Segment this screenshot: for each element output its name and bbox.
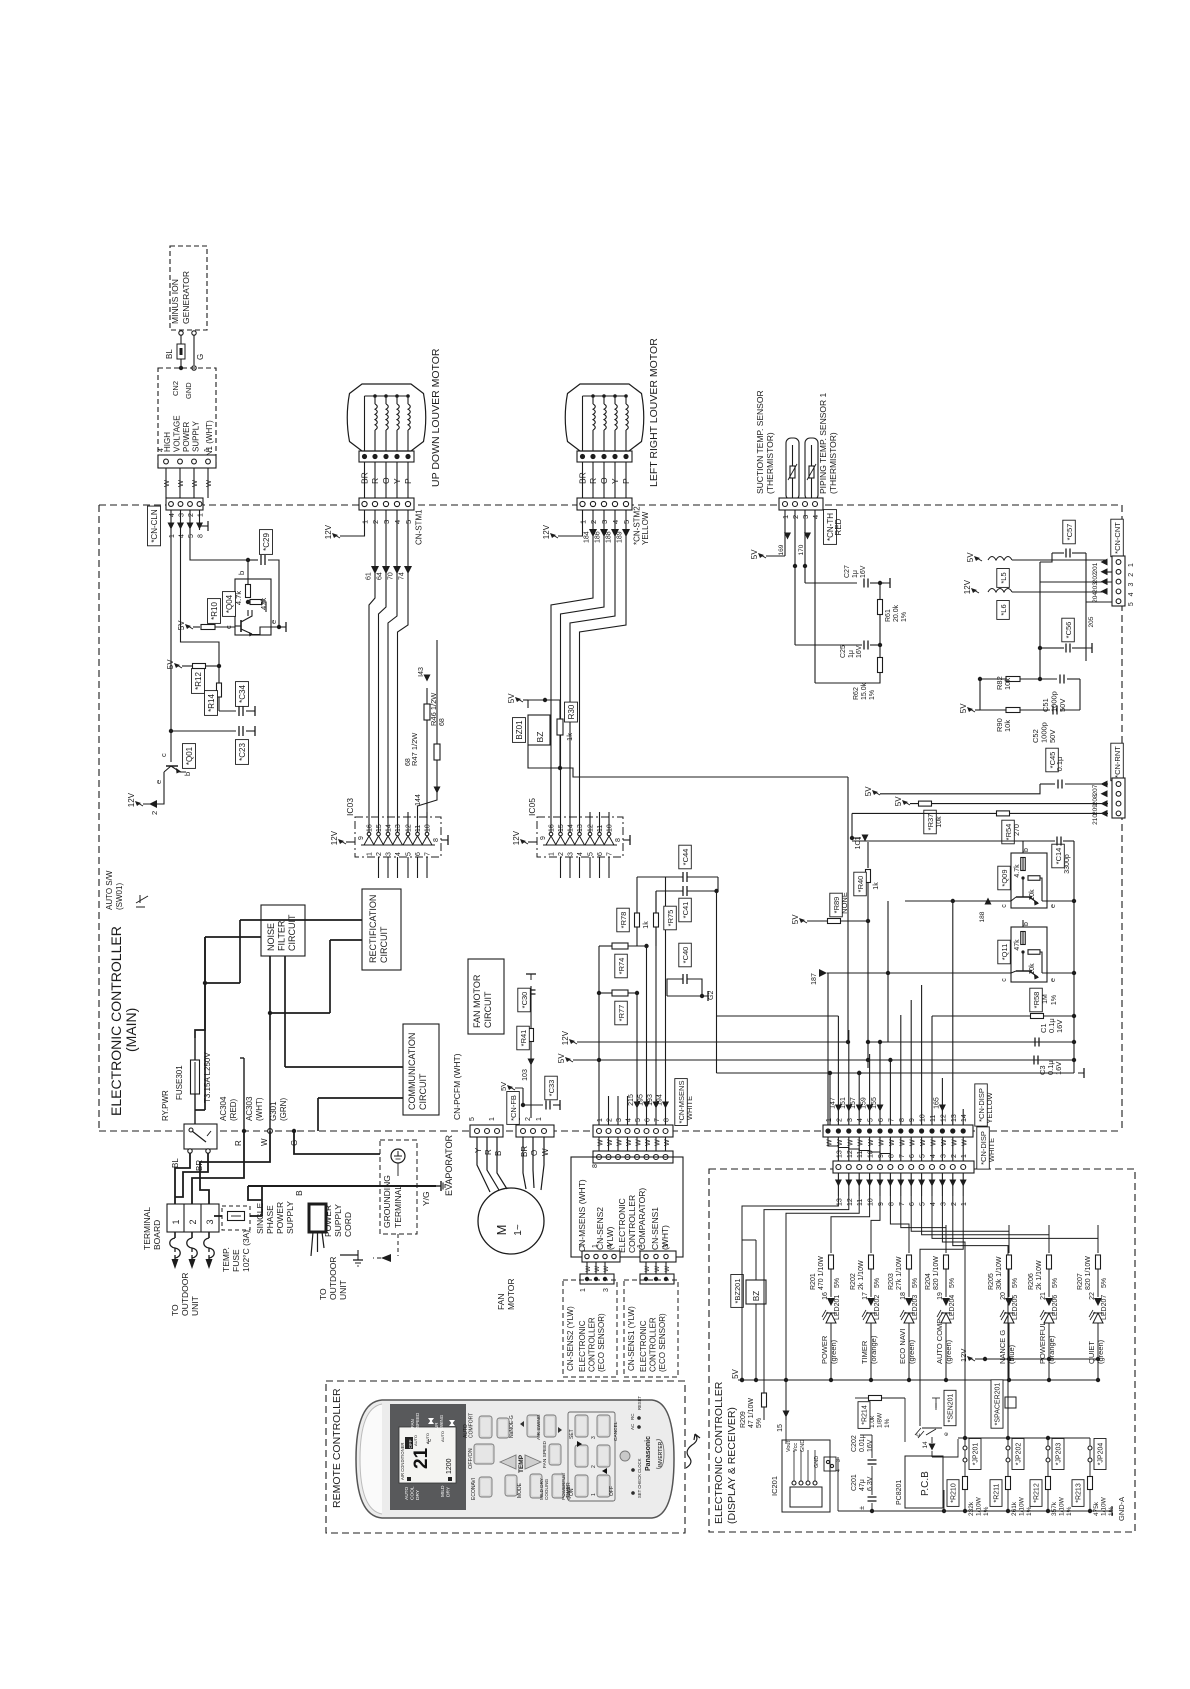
L5 L6 inductors with rails (963, 552, 1112, 628)
svg-text:SUPPLY: SUPPLY (333, 1204, 343, 1237)
svg-text:195: 195 (638, 1094, 645, 1106)
svg-text:102°C (3A): 102°C (3A) (241, 1230, 251, 1272)
svg-text:70: 70 (388, 572, 395, 580)
CN-CLN pin diodes (168, 510, 209, 538)
svg-text:POWERFUL: POWERFUL (1038, 1321, 1047, 1364)
svg-text:RESET: RESET (637, 1396, 642, 1410)
CN-CNT connector right edge (1111, 519, 1135, 606)
svg-text:5V: 5V (507, 693, 516, 703)
svg-text:RED: RED (834, 518, 843, 535)
svg-text:R61: R61 (885, 609, 892, 622)
svg-text:T3.15A L250V: T3.15A L250V (203, 1052, 212, 1103)
svg-text:MOTOR: MOTOR (506, 1279, 516, 1310)
svg-text:*C57: *C57 (1065, 524, 1074, 541)
svg-text:IC05: IC05 (527, 798, 537, 816)
svg-text:1k: 1k (643, 921, 650, 929)
svg-text:27k 1/10W: 27k 1/10W (896, 1256, 903, 1290)
fan motor circuit block (468, 959, 504, 1034)
C57 cap top right (1040, 520, 1086, 566)
svg-text:TEMP: TEMP (518, 1454, 525, 1473)
svg-text:R30: R30 (567, 704, 576, 719)
resistor R62 15.0k 1% (815, 566, 883, 700)
svg-text:184: 184 (584, 531, 591, 543)
svg-text:NONE: NONE (840, 892, 849, 914)
svg-text:M: M (494, 1225, 509, 1236)
svg-text:C27: C27 (844, 565, 851, 578)
svg-text:7: 7 (654, 1118, 661, 1122)
svg-text:147: 147 (829, 1097, 836, 1109)
svg-text:W: W (654, 1265, 661, 1272)
AC304 AC303 G301 node labels (219, 1040, 299, 1146)
misc right wires (866, 1040, 1074, 1060)
svg-text:5V: 5V (499, 1082, 508, 1091)
svg-text:5: 5 (406, 852, 413, 856)
svg-text:*CN-CNT: *CN-CNT (1113, 522, 1122, 554)
svg-text:3: 3 (940, 1154, 947, 1158)
svg-text:8: 8 (899, 1118, 906, 1122)
remote dark display panel (390, 1404, 466, 1510)
svg-text:C202: C202 (851, 1435, 858, 1452)
svg-text:*R10: *R10 (210, 602, 219, 620)
svg-text:4: 4 (1128, 592, 1135, 596)
svg-text:820 1/10W: 820 1/10W (933, 1256, 940, 1290)
svg-text:2: 2 (188, 513, 195, 517)
svg-text:189: 189 (617, 531, 624, 543)
svg-text:1%: 1% (869, 690, 876, 700)
svg-text:9: 9 (540, 836, 547, 840)
temp fuse (221, 1206, 251, 1272)
capacitors C1 C3 (1034, 1018, 1076, 1075)
svg-text:MILD: MILD (440, 1485, 446, 1497)
svg-text:5: 5 (1128, 602, 1135, 606)
svg-text:TEMP.: TEMP. (221, 1247, 231, 1272)
svg-text:187: 187 (811, 973, 818, 985)
svg-text:e: e (1050, 904, 1057, 908)
svg-text:R204: R204 (925, 1273, 932, 1290)
svg-text:PHASE: PHASE (265, 1205, 275, 1234)
svg-text:TERMINAL: TERMINAL (393, 1185, 403, 1228)
svg-text:5V: 5V (966, 552, 975, 562)
svg-text:1μ: 1μ (848, 650, 855, 658)
svg-text:b: b (1023, 848, 1030, 852)
buzzer BZ201 (731, 1240, 766, 1382)
svg-text:CN2: CN2 (171, 381, 180, 396)
ground symbol below power cord (340, 1250, 363, 1266)
svg-text:2: 2 (836, 1118, 843, 1122)
svg-text:1: 1 (961, 1202, 968, 1206)
svg-text:OUTDOOR: OUTDOOR (328, 1257, 338, 1300)
svg-text:5V: 5V (894, 796, 903, 806)
svg-text:0.01μ: 0.01μ (859, 1434, 866, 1452)
connector CN-DISP YELLOW (823, 1084, 994, 1146)
IC201 receiver ic (770, 1440, 842, 1512)
C30 R41 103 C33 components (499, 974, 560, 1118)
svg-text:MINUS ION: MINUS ION (170, 279, 180, 324)
svg-text:W: W (176, 479, 185, 487)
eco sensor dashed boxes (563, 1280, 678, 1377)
svg-text:3: 3 (1128, 583, 1135, 587)
svg-text:5%: 5% (949, 1278, 956, 1288)
svg-text:O: O (599, 477, 609, 484)
5V with R12 to node (166, 659, 221, 669)
svg-text:CN-PCFM (WHT): CN-PCFM (WHT) (452, 1053, 462, 1120)
svg-text:W: W (594, 1265, 601, 1272)
R209 and diode 15 (740, 1378, 790, 1444)
noise filter circuit block (261, 905, 305, 956)
svg-text:12: 12 (847, 1150, 854, 1158)
svg-text:R: R (234, 1140, 243, 1146)
connector CN-PCFM (452, 1053, 503, 1137)
svg-text:LED203: LED203 (912, 1295, 919, 1320)
power wiring from relay to blocks (195, 920, 403, 1131)
svg-text:c: c (159, 753, 168, 757)
svg-text:201: 201 (1092, 562, 1099, 573)
svg-text:CN-SENS2: CN-SENS2 (595, 1207, 605, 1250)
svg-text:5: 5 (635, 1118, 642, 1122)
svg-text:SINGLE: SINGLE (255, 1202, 265, 1234)
svg-text:e: e (1050, 978, 1057, 982)
svg-text:4: 4 (179, 534, 186, 538)
svg-text:3: 3 (568, 852, 575, 856)
svg-text:Y: Y (392, 478, 402, 484)
svg-text:4: 4 (930, 1202, 937, 1206)
svg-text:159: 159 (861, 1097, 868, 1109)
connector *CN-STM2 (577, 498, 650, 545)
wire BL with fuse to CN2 (165, 335, 185, 370)
svg-text:LED201: LED201 (834, 1295, 841, 1320)
PC8201 PCB box (896, 1456, 943, 1508)
svg-text:1/8W: 1/8W (877, 1412, 884, 1428)
transistor Q11 (998, 920, 1076, 982)
svg-text:1: 1 (961, 1154, 968, 1158)
diodes on CN-DISP wires (717, 901, 964, 1125)
svg-text:YELLOW: YELLOW (641, 511, 650, 545)
5V rail display box (731, 1368, 1100, 1382)
svg-text:1: 1 (549, 852, 556, 856)
svg-text:CONTROLLER: CONTROLLER (627, 1195, 637, 1253)
svg-text:3: 3 (386, 852, 393, 856)
svg-text:b: b (183, 772, 192, 776)
svg-text:1: 1 (171, 1219, 181, 1224)
svg-text:*C30: *C30 (520, 992, 529, 1009)
driver IC IC05 (512, 798, 630, 878)
svg-text:232k: 232k (968, 1501, 975, 1516)
svg-text:e: e (269, 620, 278, 624)
wire G301 to grounding terminal (294, 1131, 380, 1154)
svg-text:*C33: *C33 (547, 1080, 556, 1097)
svg-text:12V: 12V (561, 1030, 570, 1045)
svg-text:16V: 16V (856, 645, 863, 658)
svg-text:5: 5 (188, 534, 195, 538)
svg-text:(green): (green) (907, 1339, 916, 1364)
GND-A (1090, 1497, 1126, 1521)
driver IC IC03 (330, 798, 448, 878)
svg-text:11: 11 (930, 1115, 937, 1122)
svg-text:CANCEL: CANCEL (613, 1421, 619, 1441)
svg-text:W: W (644, 1265, 651, 1272)
wires to connector *CN-STM2 (578, 462, 632, 498)
display receiver dashed box (709, 1169, 1135, 1532)
svg-text:155: 155 (871, 1097, 878, 1109)
svg-text:e: e (154, 780, 163, 784)
svg-text:1: 1 (580, 1288, 587, 1292)
svg-text:8: 8 (888, 1202, 895, 1206)
svg-text:RECTIFICATION: RECTIFICATION (368, 895, 378, 963)
svg-text:POWER: POWER (323, 1205, 333, 1237)
svg-text:3: 3 (847, 1118, 854, 1122)
svg-text:68: 68 (439, 718, 446, 726)
svg-text:2: 2 (376, 852, 383, 856)
svg-text:16V: 16V (867, 1439, 874, 1452)
svg-text:1: 1 (204, 448, 211, 452)
svg-text:ECONAVI: ECONAVI (471, 1478, 477, 1500)
svg-text:5: 5 (868, 1118, 875, 1122)
svg-text:*CN-RNT: *CN-RNT (1113, 746, 1122, 778)
svg-text:FUSE301: FUSE301 (175, 1065, 184, 1100)
svg-text:4: 4 (395, 852, 402, 856)
right ground rail (830, 1068, 1084, 1078)
svg-text:CONTROLLER: CONTROLLER (649, 1317, 658, 1372)
svg-text:W: W (190, 479, 199, 487)
svg-text:5%: 5% (1012, 1278, 1019, 1288)
svg-text:186: 186 (595, 531, 602, 543)
svg-text:4: 4 (607, 1244, 614, 1248)
svg-text:ELECTRONIC CONTROLLER: ELECTRONIC CONTROLLER (108, 926, 124, 1116)
diode 187 wire (811, 901, 1011, 1042)
svg-text:PIPING TEMP. SENSOR 1: PIPING TEMP. SENSOR 1 (818, 392, 828, 494)
svg-text:NaNOE-G: NaNOE-G (509, 1415, 515, 1438)
R89 R40 187 wires (791, 835, 880, 1063)
svg-text:61: 61 (366, 572, 373, 580)
svg-text:7: 7 (888, 1118, 895, 1122)
svg-text:*R37: *R37 (926, 814, 935, 831)
svg-text:QUIET: QUIET (1087, 1341, 1096, 1364)
12V feed for blue/orange LEDs (959, 1349, 1100, 1362)
svg-text:*CN-CLN: *CN-CLN (150, 509, 159, 543)
svg-text:(orange): (orange) (869, 1335, 878, 1364)
svg-text:12V: 12V (512, 830, 521, 845)
svg-text:1: 1 (826, 1118, 833, 1122)
svg-text:*R77: *R77 (617, 1005, 626, 1022)
svg-text:12: 12 (940, 1114, 947, 1122)
svg-text:11: 11 (415, 825, 422, 832)
svg-text:R209: R209 (740, 1411, 747, 1428)
wire pin1 to C23 and Q01 (169, 510, 255, 764)
svg-text:1/10W: 1/10W (1101, 1496, 1108, 1516)
svg-text:*JP203: *JP203 (1056, 1443, 1063, 1466)
svg-text:*R75: *R75 (666, 910, 675, 927)
svg-text:12V: 12V (959, 1349, 968, 1362)
svg-text:UNIT: UNIT (338, 1280, 348, 1300)
svg-text:Vout: Vout (786, 1441, 792, 1452)
svg-text:3: 3 (205, 1219, 215, 1224)
svg-text:10: 10 (920, 1114, 927, 1122)
svg-text:GND: GND (800, 1440, 806, 1452)
svg-text:2: 2 (951, 1154, 958, 1158)
svg-text:*C41: *C41 (681, 902, 690, 919)
svg-text:15: 15 (777, 1424, 784, 1432)
svg-text:*JP204: *JP204 (1098, 1443, 1105, 1466)
C45 R37 R54 5V rails (852, 748, 1108, 844)
svg-text:9: 9 (358, 836, 365, 840)
svg-text:1: 1 (367, 852, 374, 856)
svg-text:(SW01): (SW01) (115, 883, 124, 910)
capacitor C27 1u 16V (805, 565, 890, 588)
svg-text:3: 3 (940, 1202, 947, 1206)
svg-text:AUTO: AUTO (413, 1435, 418, 1446)
svg-text:UNIT: UNIT (190, 1296, 200, 1316)
svg-text:12: 12 (847, 1198, 854, 1206)
svg-text:R: R (370, 478, 380, 484)
svg-text:11: 11 (597, 825, 604, 832)
svg-text:9: 9 (878, 1202, 885, 1206)
svg-text:SUPPLY: SUPPLY (192, 420, 201, 452)
svg-text:R206: R206 (1028, 1273, 1035, 1290)
svg-text:BR: BR (520, 1146, 529, 1157)
svg-text:CN-MSENS (WHT): CN-MSENS (WHT) (577, 1179, 587, 1252)
CN-RNT connector (1092, 743, 1125, 825)
svg-text:6: 6 (415, 852, 422, 856)
svg-text:10: 10 (868, 1150, 875, 1158)
svg-text:2: 2 (951, 1202, 958, 1206)
wires fanning into display board (742, 1196, 1098, 1438)
svg-text:OUTDOOR: OUTDOOR (180, 1273, 190, 1316)
svg-text:c: c (1001, 978, 1008, 982)
svg-text:BZ: BZ (535, 732, 545, 743)
svg-text:1: 1 (591, 1493, 597, 1496)
svg-text:TO: TO (170, 1304, 180, 1316)
svg-text:*R210: *R210 (951, 1483, 958, 1503)
svg-text:C25: C25 (840, 645, 847, 658)
CN-TH wires with diodes 169 170 (750, 510, 815, 583)
svg-text:ELECTRONIC: ELECTRONIC (617, 1198, 627, 1253)
svg-text:UP DOWN LOUVER MOTOR: UP DOWN LOUVER MOTOR (430, 348, 442, 487)
svg-text:Y: Y (474, 1147, 483, 1153)
diodes on motor wires CN-STM1 (366, 510, 413, 812)
svg-text:CN-SENS1 (YLW): CN-SENS1 (YLW) (627, 1306, 636, 1371)
C44 C41 C40 caps with G2 (637, 845, 719, 1001)
svg-text:10: 10 (607, 824, 614, 832)
jumpers JP201-204 and R210-213 (942, 1436, 1115, 1516)
svg-text:50V: 50V (1048, 730, 1057, 743)
svg-text:5: 5 (588, 852, 595, 856)
louver motor UP DOWN (347, 384, 426, 462)
svg-text:1~: 1~ (513, 1224, 524, 1236)
fuse FUSE301 (175, 937, 212, 1124)
svg-text:4: 4 (930, 1154, 937, 1158)
svg-text:W: W (541, 1148, 550, 1156)
svg-text:AUTO: AUTO (404, 1486, 410, 1500)
svg-text:c: c (1001, 904, 1008, 908)
svg-text:15.0k: 15.0k (861, 682, 868, 700)
transistor Q01 (154, 731, 196, 790)
svg-text:BOARD: BOARD (152, 1220, 162, 1250)
connector CN-CLN (148, 498, 205, 546)
svg-text:21: 21 (411, 1447, 432, 1469)
svg-text:(green): (green) (944, 1339, 953, 1364)
svg-text:ELECTRONIC: ELECTRONIC (639, 1320, 648, 1372)
long bus wire from comparator area down to CN-DISP (560, 768, 868, 1127)
svg-text:DRY: DRY (415, 1489, 421, 1500)
buzzer BZ01 and R30 (507, 693, 578, 770)
svg-text:270: 270 (1014, 824, 1021, 836)
svg-text:8: 8 (615, 838, 622, 842)
svg-text:5%: 5% (834, 1278, 841, 1288)
svg-text:3: 3 (836, 1459, 842, 1462)
svg-text:R: R (588, 478, 598, 484)
SPACER201 (991, 1380, 1016, 1428)
svg-text:17: 17 (862, 1292, 869, 1300)
svg-text:(RED): (RED) (229, 1098, 238, 1121)
svg-text:2: 2 (1128, 573, 1135, 577)
svg-text:REMOTE CONTROLLER: REMOTE CONTROLLER (331, 1388, 343, 1508)
terminal board (142, 1204, 219, 1250)
svg-text:2k 1/10W: 2k 1/10W (858, 1260, 865, 1290)
svg-text:47k: 47k (1014, 939, 1021, 951)
svg-text:*R54: *R54 (1004, 824, 1013, 841)
svg-text:R207: R207 (1077, 1273, 1084, 1290)
thick wire to evaporator ground (248, 1186, 436, 1200)
svg-text:*SPACER201: *SPACER201 (995, 1383, 1002, 1426)
svg-text:14: 14 (922, 1441, 929, 1449)
svg-text:12V: 12V (542, 524, 551, 539)
svg-text:(WHT): (WHT) (255, 1097, 264, 1121)
svg-text:169: 169 (778, 544, 785, 555)
svg-text:170: 170 (798, 544, 805, 555)
svg-text:10k: 10k (936, 816, 943, 828)
svg-text:AUTO: AUTO (440, 1431, 445, 1442)
svg-text:AIR CONDITIONER: AIR CONDITIONER (400, 1443, 405, 1480)
svg-text:W: W (664, 1265, 671, 1272)
svg-text:103: 103 (522, 1069, 529, 1081)
svg-text:12V: 12V (963, 579, 972, 594)
svg-text:*Q11: *Q11 (1000, 944, 1009, 961)
svg-text:YELLOW: YELLOW (985, 1091, 994, 1123)
grounding terminal (373, 1140, 417, 1262)
svg-text:30k 1/10W: 30k 1/10W (996, 1256, 1003, 1290)
svg-text:*C44: *C44 (681, 849, 690, 866)
svg-text:COOL: COOL (410, 1486, 416, 1500)
svg-text:470 1/10W: 470 1/10W (818, 1256, 825, 1290)
svg-text:COMMUNICATION: COMMUNICATION (407, 1033, 417, 1110)
svg-text:1k: 1k (873, 882, 880, 890)
svg-text:16: 16 (549, 824, 556, 832)
svg-text:EVAPORATOR: EVAPORATOR (444, 1134, 454, 1196)
svg-text:8: 8 (664, 1118, 671, 1122)
svg-text:Y: Y (610, 478, 620, 484)
svg-text:Vcc: Vcc (793, 1443, 799, 1452)
svg-text:4: 4 (169, 513, 176, 517)
svg-text:*JP202: *JP202 (1016, 1443, 1023, 1466)
svg-text:475k: 475k (1093, 1501, 1100, 1516)
svg-text:4.7k: 4.7k (1014, 864, 1021, 878)
svg-text:4: 4 (857, 1118, 864, 1122)
svg-text:CONTROLLER: CONTROLLER (588, 1317, 597, 1372)
connector CN-FB (507, 1092, 554, 1138)
svg-text:W: W (162, 479, 171, 487)
svg-text:5V: 5V (731, 1368, 740, 1378)
resistor R10 with 5V (177, 599, 235, 631)
svg-text:COOLING: COOLING (544, 1478, 549, 1500)
svg-text:1/10W: 1/10W (1059, 1496, 1066, 1516)
svg-text:GND: GND (814, 1456, 820, 1468)
svg-text:8: 8 (433, 838, 440, 842)
svg-text:SUCTION TEMP. SENSOR: SUCTION TEMP. SENSOR (755, 390, 765, 494)
svg-text:15: 15 (376, 824, 383, 832)
svg-text:21: 21 (1040, 1292, 1047, 1300)
svg-text:16: 16 (822, 1292, 829, 1300)
svg-text:1%: 1% (901, 612, 908, 622)
